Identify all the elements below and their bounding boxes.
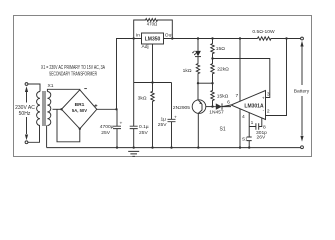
capacitor C1 4700u	[113, 110, 121, 148]
pin 2 input wire	[266, 39, 287, 116]
svg-text:26V: 26V	[257, 135, 266, 141]
svg-text:15Ω: 15Ω	[216, 46, 225, 52]
svg-text:Battery: Battery	[294, 88, 310, 94]
wire emitter junction to divider	[198, 82, 213, 84]
ground	[128, 151, 139, 156]
node bridge left vertex	[60, 108, 62, 110]
svg-text:2N2905: 2N2905	[173, 105, 190, 111]
node bridge bottom vertex	[79, 128, 81, 130]
node rail divider column	[211, 37, 213, 39]
node LED column on rail	[197, 37, 199, 39]
node emitter junction	[197, 82, 199, 84]
svg-text:S1: S1	[242, 136, 248, 142]
svg-text:6: 6	[227, 100, 230, 106]
bridge rectifier BR1	[62, 90, 97, 129]
capacitor C3 1u	[168, 83, 176, 148]
svg-text:25V: 25V	[101, 130, 110, 136]
node adjust	[151, 81, 153, 83]
svg-text:1: 1	[251, 120, 254, 126]
pin 4 ground drop	[239, 109, 241, 148]
node C2 bus	[133, 146, 135, 148]
LM350 U1 box	[142, 33, 164, 44]
transformer X1 primary	[37, 92, 40, 126]
resistor RS 0.5 ohm 10W	[258, 37, 272, 40]
svg-text:15kΩ: 15kΩ	[217, 94, 229, 100]
svg-text:25V: 25V	[139, 130, 148, 136]
wire sense line to op-amp	[213, 58, 270, 61]
capacitor C2 0.1u	[130, 83, 138, 148]
node battery sense	[285, 37, 287, 39]
svg-text:SECONDARY TRANSFORMER: SECONDARY TRANSFORMER	[49, 72, 97, 78]
svg-text:LM301A: LM301A	[244, 104, 264, 110]
node divider mid junction	[211, 82, 213, 84]
transformer X1 secondary	[47, 92, 50, 126]
node pin1 bus	[248, 146, 250, 148]
node R1 right leg on rail	[171, 37, 173, 39]
svg-text:In: In	[136, 33, 140, 39]
wire Out rail	[164, 38, 301, 40]
battery minus terminal	[301, 146, 304, 149]
wire mains bottom to primary	[28, 126, 40, 143]
pin 3 input wire	[266, 59, 270, 98]
resistor R4 15 ohm	[211, 39, 214, 59]
resistor R5 22k	[211, 59, 214, 84]
wire secondary to bridge left vertex	[53, 108, 62, 110]
pin 7 supply riser	[239, 39, 241, 102]
label 230V AC 50Hz	[15, 105, 35, 117]
battery plus terminal	[301, 37, 304, 40]
battery arrow line	[301, 46, 303, 136]
node pin7 rail	[239, 37, 241, 39]
svg-text:+: +	[262, 97, 265, 102]
transistor Q1 2N2905	[192, 100, 206, 114]
svg-text:0.5Ω-10W: 0.5Ω-10W	[252, 29, 275, 35]
node pin4 bus	[239, 146, 241, 148]
AC input terminal top	[25, 83, 28, 86]
svg-text:4: 4	[242, 114, 245, 120]
node plus junction	[115, 108, 117, 110]
wire secondary bottom to bus	[46, 125, 48, 147]
svg-text:+: +	[174, 115, 177, 120]
node collector bus	[197, 146, 199, 148]
resistor R6 15k	[211, 83, 214, 106]
svg-text:Adj: Adj	[142, 44, 149, 50]
svg-text:2: 2	[267, 109, 270, 115]
wire bridge bottom loop	[57, 110, 80, 142]
svg-text:0.1µ: 0.1µ	[139, 124, 149, 130]
svg-text:3kΩ: 3kΩ	[138, 96, 147, 102]
diode D1 1N457	[215, 103, 231, 109]
pin 1 drop with S1 contacts	[247, 113, 252, 148]
wire base	[206, 106, 215, 108]
svg-text:1µ: 1µ	[160, 117, 166, 123]
wire bottom bus	[47, 147, 301, 149]
resistor R1 470 ohm loop	[134, 19, 173, 83]
svg-text:50Hz: 50Hz	[19, 111, 31, 117]
resistor R3 1k	[196, 57, 199, 84]
resistor R2 3k	[151, 83, 154, 148]
wire riser to In rail	[117, 39, 142, 110]
svg-text:4700µ: 4700µ	[100, 124, 114, 130]
wire mains top to primary	[28, 84, 40, 92]
node base junction	[211, 105, 213, 107]
svg-text:5A, 50V: 5A, 50V	[72, 108, 87, 113]
transformer core	[43, 91, 45, 126]
node R2 bus	[151, 146, 153, 148]
svg-text:22kΩ: 22kΩ	[217, 66, 229, 72]
svg-text:+: +	[120, 122, 123, 127]
wire emitter lead	[197, 83, 199, 100]
LM350 adjust pin	[152, 44, 154, 83]
wire op-amp output to diode	[222, 105, 231, 107]
svg-text:7: 7	[235, 93, 238, 99]
svg-text:X1: X1	[48, 83, 54, 89]
AC input terminal bottom	[25, 141, 28, 144]
svg-text:1kΩ: 1kΩ	[183, 68, 192, 74]
svg-text:8: 8	[263, 125, 266, 131]
node divider top junction	[211, 57, 213, 59]
compensation capacitor C4	[249, 118, 262, 130]
svg-text:S1: S1	[220, 126, 226, 132]
border frame (decorative)	[14, 16, 312, 157]
svg-text:1N457: 1N457	[209, 110, 224, 116]
node C1 bus	[116, 146, 118, 148]
svg-text:25V: 25V	[158, 122, 167, 128]
AC input arrow line	[26, 92, 28, 134]
node C3 bus	[170, 146, 172, 148]
svg-text:X1 = 230V AC PRIMARY TO 15V AC: X1 = 230V AC PRIMARY TO 15V AC, 3A	[41, 65, 105, 71]
wire secondary top to bridge top	[47, 89, 79, 91]
LED D2	[197, 39, 199, 51]
svg-text:LM350: LM350	[145, 37, 161, 43]
note text X1	[41, 65, 105, 78]
op-amp U2 LM301A	[231, 91, 266, 120]
svg-text:470Ω: 470Ω	[147, 22, 158, 27]
wire bridge plus to riser	[97, 108, 117, 110]
node R1 left leg crossing In wire	[133, 37, 135, 39]
wire adjust node horizontal	[134, 82, 172, 84]
